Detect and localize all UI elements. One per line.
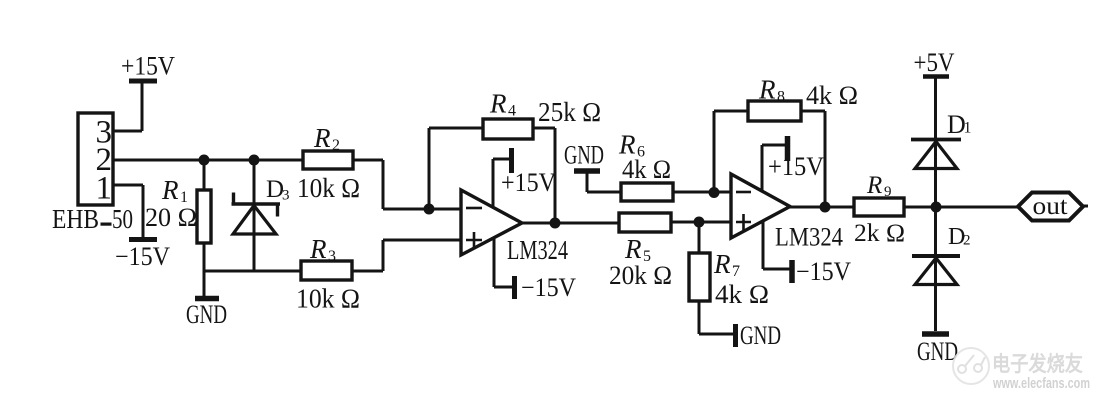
svg-text:R: R [161, 175, 179, 205]
svg-text:50: 50 [112, 204, 133, 234]
svg-text:10k Ω: 10k Ω [296, 284, 360, 314]
svg-text:2k Ω: 2k Ω [854, 220, 905, 247]
svg-text:R: R [309, 234, 327, 264]
svg-text:电子发烧友: 电子发烧友 [992, 352, 1083, 376]
svg-text:+5V: +5V [914, 48, 955, 77]
svg-text:4: 4 [508, 103, 516, 120]
svg-text:+15V: +15V [768, 152, 824, 181]
svg-text:+15V: +15V [501, 168, 556, 197]
svg-text:R: R [313, 123, 331, 153]
svg-text:3: 3 [282, 188, 290, 204]
svg-text:LM324: LM324 [507, 235, 568, 265]
svg-text:R: R [713, 249, 731, 279]
svg-text:25k Ω: 25k Ω [538, 97, 601, 127]
svg-text:LM324: LM324 [775, 223, 843, 252]
svg-text:4k Ω: 4k Ω [622, 155, 671, 184]
svg-text:R: R [624, 234, 642, 264]
svg-text:7: 7 [732, 263, 740, 280]
svg-text:20k Ω: 20k Ω [609, 261, 672, 290]
svg-text:10k Ω: 10k Ω [297, 173, 360, 203]
svg-text:3: 3 [328, 248, 336, 265]
svg-text:GND: GND [564, 141, 604, 170]
svg-text:2: 2 [332, 137, 340, 154]
svg-text:20 Ω: 20 Ω [145, 203, 197, 232]
svg-text:GND: GND [186, 300, 227, 329]
svg-text:www.elecfans.com: www.elecfans.com [992, 375, 1090, 392]
svg-text:9: 9 [884, 184, 892, 200]
svg-text:+15V: +15V [121, 52, 175, 81]
svg-text:out: out [1033, 193, 1068, 220]
svg-text:4k Ω: 4k Ω [806, 81, 858, 110]
svg-text:−15V: −15V [115, 242, 170, 271]
svg-text:GND: GND [740, 321, 781, 350]
svg-text:−15V: −15V [521, 273, 576, 302]
svg-text:R: R [758, 75, 776, 105]
svg-text:2: 2 [963, 233, 971, 249]
svg-text:GND: GND [917, 337, 958, 366]
svg-text:4k Ω: 4k Ω [715, 280, 769, 309]
svg-text:8: 8 [777, 89, 785, 106]
svg-text:R: R [866, 172, 882, 199]
svg-text:EHB: EHB [52, 204, 99, 234]
svg-text:1: 1 [96, 171, 113, 207]
svg-text:R: R [489, 89, 507, 119]
svg-text:−15V: −15V [796, 257, 851, 286]
svg-text:1: 1 [964, 120, 972, 137]
